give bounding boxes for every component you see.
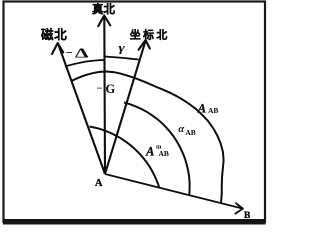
- label Am_AB: [145, 143, 169, 158]
- wire line A to B: [105, 174, 243, 209]
- arrowhead grid north: [139, 40, 150, 50]
- svg-text:B: B: [244, 211, 251, 221]
- label gamma: [118, 43, 125, 55]
- label grid north (zuo biao bei): [130, 27, 170, 41]
- label point B: [244, 211, 251, 221]
- svg-text:A: A: [145, 145, 154, 159]
- svg-text:AB: AB: [208, 106, 218, 115]
- wire grid north line: [105, 41, 146, 175]
- arc declination -delta: [65, 60, 105, 67]
- svg-text:G: G: [106, 82, 116, 96]
- svg-text:Δ: Δ: [75, 46, 89, 61]
- svg-text:γ: γ: [118, 43, 125, 55]
- label -G: [97, 82, 116, 96]
- label alpha_AB: [178, 124, 195, 137]
- svg-text:坐标北: 坐标北: [130, 27, 170, 41]
- label -delta: [66, 46, 89, 62]
- svg-text:−: −: [97, 84, 103, 95]
- label A_AB: [197, 101, 219, 115]
- arrowhead magnetic north: [52, 43, 63, 54]
- arrowhead B: [235, 203, 242, 213]
- svg-text:AB: AB: [185, 128, 195, 137]
- svg-text:A: A: [95, 178, 103, 189]
- svg-text:磁北: 磁北: [40, 27, 68, 42]
- svg-text:α: α: [178, 124, 184, 135]
- arc magnetic azimuth Am_AB inner: [90, 127, 160, 189]
- arc convergence gamma: [105, 57, 139, 60]
- arc coordinate azimuth alpha_AB middle: [124, 103, 190, 196]
- wire true north line: [103, 17, 106, 174]
- svg-text:−: −: [66, 46, 73, 60]
- label true north (zhen bei): [92, 2, 115, 16]
- wire magnetic north line: [58, 44, 105, 175]
- arrowhead true north: [98, 16, 110, 27]
- svg-text:真北: 真北: [92, 2, 115, 16]
- frame border: [3, 2, 266, 225]
- label magnetic north (ci bei): [40, 27, 68, 42]
- arc true azimuth A_AB outer: [72, 72, 224, 203]
- svg-text:AB: AB: [159, 149, 169, 158]
- label point A: [95, 178, 103, 189]
- svg-text:A: A: [197, 101, 206, 115]
